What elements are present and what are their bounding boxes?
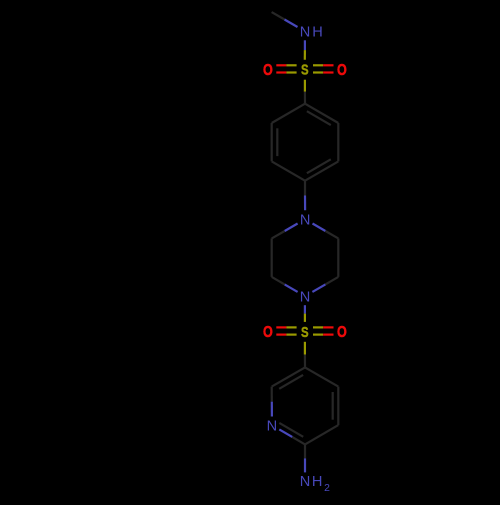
- svg-text:O: O: [337, 324, 347, 341]
- pyridine double bond inner line N1-C2: [279, 423, 303, 437]
- bond C(pyridine C6)-N(amino): [304, 444, 306, 458]
- pyridine bond N1-C2: [271, 402, 273, 417]
- benzene bond C4-C5: [272, 161, 305, 180]
- svg-text:N: N: [300, 290, 311, 306]
- pyridine double bond inner line C3-C4: [332, 392, 334, 420]
- svg-text:NH: NH: [300, 25, 325, 41]
- benzene bond C6-C1: [272, 104, 305, 123]
- svg-text:O: O: [263, 62, 273, 79]
- svg-text:N: N: [267, 418, 278, 434]
- piperazine bond N1-C2: [313, 224, 326, 232]
- pyridine bond C2-C3: [272, 367, 305, 386]
- benzene double bond inner line benzene bond C1-C2: [307, 111, 331, 125]
- benzene bond C2-C3: [337, 123, 339, 161]
- double bond S2=O left (lower line): [276, 334, 286, 336]
- pyridine bond C3-C4: [305, 367, 338, 386]
- bond N-S1: [304, 40, 306, 50]
- bond S1-C(benzene C1): [304, 80, 306, 92]
- piperazine bond C2-C3: [337, 238, 339, 277]
- benzene bond C5-C6: [271, 123, 273, 161]
- pyridine bond C6-N1: [292, 437, 305, 445]
- svg-text:S: S: [301, 324, 309, 341]
- double bond S1=O left (upper line): [276, 64, 286, 66]
- bond S2-C(pyridine C3): [304, 342, 306, 355]
- pyridine bond C4-C5: [337, 387, 339, 426]
- piperazine bond C6-N1: [272, 231, 285, 238]
- pyridine bond C5-C6(amino C): [305, 425, 338, 444]
- benzene bond C3-C4: [305, 161, 338, 180]
- pyridine double bond inner line C5-C6: [279, 375, 303, 389]
- svg-text:S: S: [301, 62, 309, 79]
- double bond S1=O left (lower line): [276, 71, 286, 73]
- bond C(benzene C4)-N1(piperazine): [304, 181, 306, 196]
- piperazine bond C3-N4: [325, 277, 338, 285]
- svg-text:N: N: [300, 213, 311, 229]
- bond CH3-N (methyl to sulfonamide N): [272, 12, 285, 19]
- double bond S2=O right (upper line): [313, 326, 323, 328]
- benzene double bond inner line benzene bond C3-C4: [307, 159, 331, 173]
- benzene bond C1-C2: [305, 104, 338, 123]
- svg-text:O: O: [263, 324, 273, 341]
- double bond S1=O right (lower line): [313, 71, 323, 73]
- piperazine bond N4-C5: [285, 284, 298, 292]
- piperazine bond C5-C6: [271, 238, 273, 277]
- double bond S2=O right (lower line): [313, 334, 323, 336]
- double bond S1=O right (upper line): [313, 64, 323, 66]
- benzene double bond inner line benzene bond C5-C6: [276, 128, 278, 156]
- bond N2-S2: [304, 305, 306, 313]
- svg-text:O: O: [337, 62, 347, 79]
- double bond S2=O left (upper line): [276, 326, 286, 328]
